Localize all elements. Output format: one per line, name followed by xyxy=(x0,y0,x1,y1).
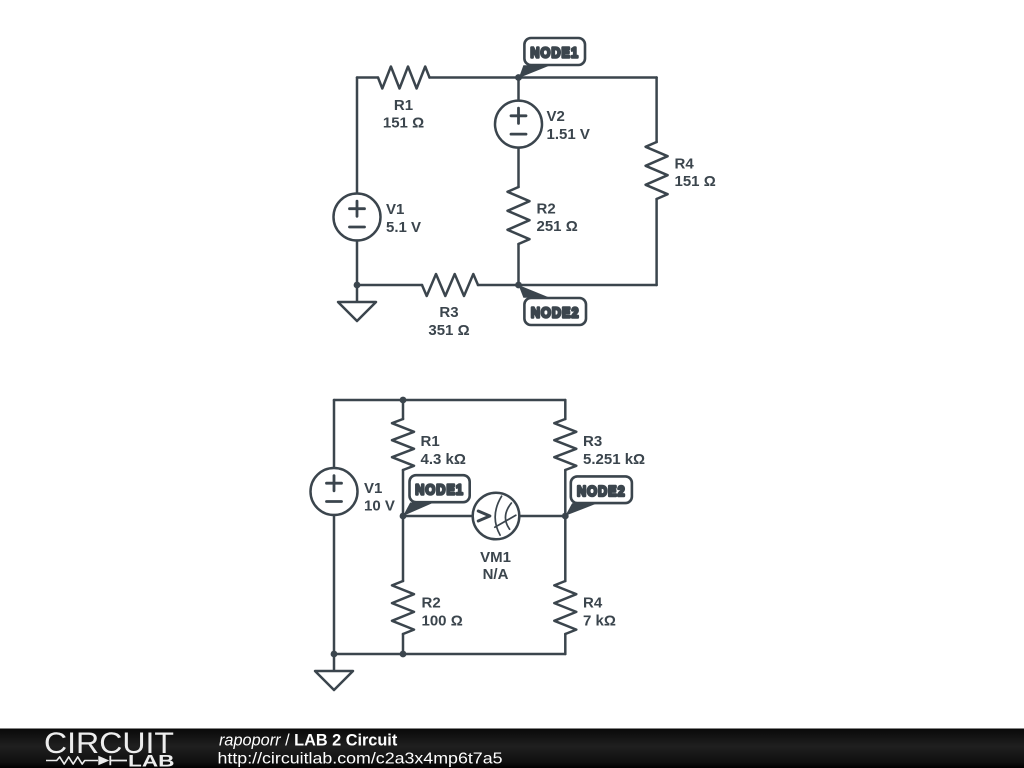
svg-text:100 Ω: 100 Ω xyxy=(422,613,463,630)
svg-text:R1: R1 xyxy=(394,97,413,114)
svg-text:N/A: N/A xyxy=(483,566,509,583)
svg-text:R2: R2 xyxy=(537,201,556,218)
svg-text:351 Ω: 351 Ω xyxy=(428,322,469,339)
svg-text:VM1: VM1 xyxy=(480,549,511,566)
svg-text:251 Ω: 251 Ω xyxy=(537,218,578,235)
svg-text:NODE2: NODE2 xyxy=(577,482,626,499)
svg-text:R3: R3 xyxy=(439,304,458,321)
svg-text:10 V: 10 V xyxy=(364,498,395,515)
svg-text:NODE2: NODE2 xyxy=(531,303,580,320)
svg-text:LAB: LAB xyxy=(128,752,175,768)
svg-text:NODE1: NODE1 xyxy=(530,43,579,60)
svg-text:7 kΩ: 7 kΩ xyxy=(583,613,616,630)
svg-text:NODE1: NODE1 xyxy=(415,481,464,498)
svg-text:V2: V2 xyxy=(547,108,565,125)
svg-text:1.51 V: 1.51 V xyxy=(547,126,590,143)
svg-text:5.251 kΩ: 5.251 kΩ xyxy=(583,451,645,468)
svg-text:4.3 kΩ: 4.3 kΩ xyxy=(421,451,466,468)
svg-text:http://circuitlab.com/c2a3x4mp: http://circuitlab.com/c2a3x4mp6t7a5 xyxy=(218,751,503,768)
svg-text:R4: R4 xyxy=(583,595,603,612)
svg-text:151 Ω: 151 Ω xyxy=(675,173,716,190)
svg-text:R2: R2 xyxy=(422,595,441,612)
svg-text:R4: R4 xyxy=(675,156,695,173)
svg-text:151 Ω: 151 Ω xyxy=(383,115,424,132)
svg-text:V1: V1 xyxy=(386,201,404,218)
svg-text:R3: R3 xyxy=(583,433,602,450)
svg-text:V1: V1 xyxy=(364,480,382,497)
svg-text:5.1 V: 5.1 V xyxy=(386,219,421,236)
svg-text:rapoporr / LAB 2 Circuit: rapoporr / LAB 2 Circuit xyxy=(219,732,398,750)
svg-text:R1: R1 xyxy=(421,433,440,450)
